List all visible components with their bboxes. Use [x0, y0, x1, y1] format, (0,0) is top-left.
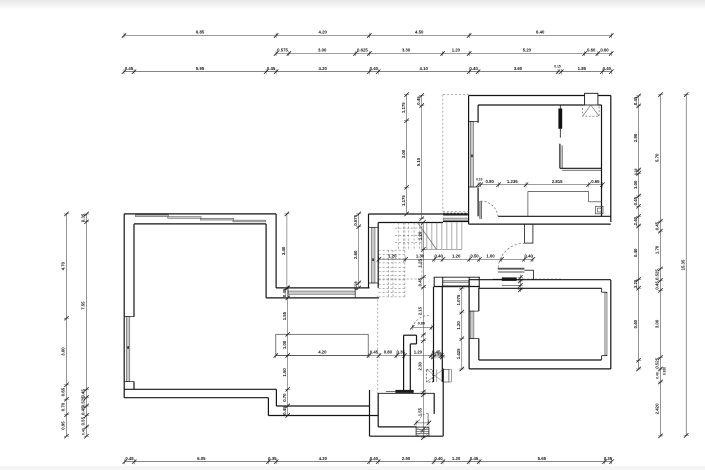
svg-text:4.20: 4.20: [319, 456, 328, 461]
svg-text:1.20: 1.20: [414, 350, 423, 355]
svg-text:5.20: 5.20: [523, 48, 532, 53]
kitchen partition wall with door gap: [558, 105, 562, 138]
svg-text:5.70: 5.70: [655, 153, 660, 162]
svg-text:0.625: 0.625: [357, 48, 368, 53]
svg-text:0.35: 0.35: [604, 456, 613, 461]
svg-text:1.235: 1.235: [507, 179, 518, 184]
svg-text:4.20: 4.20: [319, 66, 328, 71]
dimension chain top row 3: [122, 66, 614, 74]
svg-text:0.225: 0.225: [354, 281, 358, 290]
svg-text:1.70: 1.70: [655, 245, 660, 254]
dimension chain top row 2: [274, 48, 614, 56]
svg-text:4.10: 4.10: [420, 66, 429, 71]
svg-text:1.20: 1.20: [452, 48, 461, 53]
svg-text:1.20: 1.20: [456, 321, 461, 330]
svg-text:0.80: 0.80: [486, 179, 495, 184]
stairs cut diagonal: [418, 223, 437, 250]
svg-text:3.60: 3.60: [514, 66, 523, 71]
svg-text:2.15: 2.15: [418, 306, 423, 315]
chimney box with X: [427, 369, 452, 382]
svg-text:5.10: 5.10: [416, 157, 421, 166]
svg-text:1.55: 1.55: [282, 311, 287, 320]
hall top wall window (right of stairs): [443, 213, 469, 221]
svg-text:0.45: 0.45: [418, 277, 423, 286]
kitchen west window: [469, 122, 479, 188]
svg-text:0.45: 0.45: [655, 281, 660, 290]
dimension chain left inner: [81, 212, 89, 439]
middle wall between WC and bottom-right wing: [434, 287, 443, 382]
corridor door dashed arc: [498, 243, 524, 267]
WC door arc: [412, 315, 430, 327]
svg-text:0.45: 0.45: [125, 456, 134, 461]
svg-text:0.80: 0.80: [384, 350, 393, 355]
svg-text:0.45: 0.45: [434, 352, 441, 356]
svg-text:1.20: 1.20: [388, 254, 397, 259]
bottom-right room SE notch: [602, 355, 607, 360]
svg-text:0.525: 0.525: [655, 269, 660, 280]
svg-text:3.30: 3.30: [402, 48, 411, 53]
svg-text:2.30: 2.30: [418, 362, 423, 371]
middle-bottom room walls: [370, 369, 444, 437]
dimension chain top row 1: [122, 30, 614, 38]
svg-text:1.175: 1.175: [401, 195, 406, 206]
bottom-right room NE notch: [602, 288, 607, 293]
svg-text:0.45: 0.45: [655, 221, 660, 230]
corridor band south window: [434, 277, 480, 288]
svg-text:0.40: 0.40: [633, 248, 638, 257]
svg-text:3.00: 3.00: [61, 347, 66, 356]
dimension chain bottom row: [123, 456, 614, 464]
svg-text:0.45: 0.45: [81, 389, 86, 398]
svg-text:0.55: 0.55: [81, 416, 86, 425]
kitchen door (bottom-left): [480, 201, 498, 219]
south window band of terrace gap: [266, 288, 379, 298]
stairs dimension row: [377, 254, 535, 262]
svg-text:3.00: 3.00: [318, 48, 327, 53]
dimension chain right middle: [655, 92, 663, 438]
middle-bottom room door: [414, 414, 431, 426]
svg-text:2.50: 2.50: [402, 456, 411, 461]
svg-text:0.40: 0.40: [82, 428, 86, 435]
svg-text:1.25: 1.25: [418, 259, 423, 268]
svg-text:4.50: 4.50: [415, 30, 424, 35]
svg-text:0.70: 0.70: [282, 393, 287, 402]
svg-text:4.70: 4.70: [61, 261, 66, 270]
corridor radiator: [493, 277, 521, 285]
stairs dashed void outline: [379, 223, 422, 299]
svg-text:1.20: 1.20: [452, 254, 461, 259]
corridor south wall segment: [498, 269, 534, 280]
svg-text:0.40: 0.40: [656, 372, 660, 379]
svg-text:6.05: 6.05: [197, 456, 206, 461]
svg-text:0.40: 0.40: [525, 254, 534, 259]
svg-text:2.420: 2.420: [655, 403, 660, 414]
svg-text:4.20: 4.20: [318, 350, 327, 355]
svg-text:0.10: 0.10: [476, 178, 482, 182]
bottom-right room east window: [604, 292, 607, 356]
stairs vertical dimension chain: [418, 220, 426, 440]
interior vertical dimension chain bottom-right room: [456, 286, 464, 371]
svg-text:0.40: 0.40: [603, 66, 612, 71]
bottom-right room west window: [469, 311, 479, 338]
radiator below terrace wall: [386, 390, 414, 393]
kitchen counter: [528, 191, 602, 216]
hall left wall: [369, 214, 379, 288]
svg-text:0.50: 0.50: [470, 254, 479, 259]
svg-text:2.815: 2.815: [552, 179, 563, 184]
middle-bottom room hatched sill: [416, 427, 429, 436]
svg-text:6.40: 6.40: [536, 30, 545, 35]
svg-text:2.60: 2.60: [353, 250, 358, 259]
svg-text:0.80: 0.80: [418, 322, 425, 326]
WC door dimension 0.80: [410, 322, 434, 330]
corridor radiator dimension ticks: [518, 275, 523, 293]
svg-text:0.35: 0.35: [268, 456, 277, 461]
svg-text:3.00: 3.00: [655, 319, 660, 328]
svg-text:0.45: 0.45: [282, 288, 287, 297]
gap vertical dimension 3.40: [281, 212, 289, 290]
svg-text:1.175: 1.175: [401, 102, 406, 113]
hall left wall window: [369, 227, 379, 283]
svg-text:7.55: 7.55: [81, 301, 86, 310]
dashed floor-above outline over hall: [443, 95, 469, 212]
svg-text:2.90: 2.90: [633, 133, 638, 142]
stairs dashed continuation (above cut): [395, 223, 422, 250]
svg-text:0.40: 0.40: [370, 456, 379, 461]
svg-text:0.45: 0.45: [416, 96, 421, 105]
gap vertical dimension 0.575/2.60/0.225: [353, 212, 361, 290]
kitchen interior dimension row: [476, 179, 605, 187]
terrace rectangle: [276, 334, 368, 355]
svg-text:0.60: 0.60: [600, 48, 609, 53]
svg-text:15.35: 15.35: [680, 259, 685, 270]
svg-text:5.95: 5.95: [196, 66, 205, 71]
kitchen outer walls: [469, 96, 611, 225]
stairs lower flight treads: [379, 250, 406, 297]
svg-text:1.425: 1.425: [456, 348, 461, 359]
kitchen sink: [596, 206, 604, 214]
svg-text:0.45: 0.45: [633, 96, 638, 105]
svg-text:1.50: 1.50: [282, 368, 287, 377]
svg-text:0.45: 0.45: [81, 406, 86, 415]
dimension chain right inner: [633, 94, 641, 372]
svg-text:0.45: 0.45: [125, 66, 134, 71]
svg-text:0.40: 0.40: [469, 66, 478, 71]
svg-text:3.25: 3.25: [633, 279, 638, 288]
corridor door stub wall: [524, 224, 533, 243]
svg-text:0.525: 0.525: [655, 357, 660, 368]
svg-text:2.40: 2.40: [633, 216, 638, 225]
svg-text:0.575: 0.575: [277, 48, 288, 53]
svg-text:0.35: 0.35: [81, 213, 86, 222]
stairs upper flight treads: [422, 223, 462, 250]
svg-text:6.85: 6.85: [196, 30, 205, 35]
dimension chain right overall: [680, 92, 688, 437]
svg-text:5.65: 5.65: [538, 456, 547, 461]
svg-text:1.55: 1.55: [418, 407, 423, 416]
terrace dimension row: [274, 350, 444, 358]
svg-text:0.40: 0.40: [370, 66, 379, 71]
svg-text:1.075: 1.075: [456, 294, 461, 305]
svg-text:0.15: 0.15: [554, 65, 561, 69]
svg-text:0.70: 0.70: [61, 402, 66, 411]
svg-text:1.20: 1.20: [452, 456, 461, 461]
svg-text:0.15: 0.15: [634, 168, 638, 175]
svg-text:0.40: 0.40: [434, 456, 443, 461]
svg-text:0.45: 0.45: [633, 196, 638, 205]
living room bottom step walls: [268, 389, 378, 415]
hall vertical dimension 0.45/5.10: [416, 93, 424, 221]
svg-text:0.45: 0.45: [470, 456, 479, 461]
svg-text:0.45: 0.45: [370, 350, 379, 355]
svg-text:1.20: 1.20: [418, 231, 423, 240]
svg-text:0.920: 0.920: [662, 367, 666, 375]
hall top wall: [369, 214, 469, 223]
kitchen closet walls: [560, 144, 602, 171]
svg-text:0.45: 0.45: [267, 66, 276, 71]
WC west wall: [404, 335, 417, 390]
svg-text:0.525: 0.525: [81, 396, 86, 407]
svg-text:0.60: 0.60: [587, 48, 596, 53]
dashed opening over bottom-right room top wall: [523, 278, 561, 280]
svg-text:0.65: 0.65: [61, 387, 66, 396]
svg-text:1.00: 1.00: [633, 180, 638, 189]
living room top window: [135, 215, 265, 222]
hall vertical dimension chain: [401, 92, 409, 216]
svg-text:1.85: 1.85: [578, 66, 587, 71]
wall-width dimension 0.45 near WC: [431, 352, 446, 359]
kitchen chimney: [583, 93, 600, 116]
svg-text:0.65: 0.65: [591, 179, 600, 184]
svg-text:0.45: 0.45: [282, 406, 287, 415]
svg-text:0.40: 0.40: [633, 319, 638, 328]
svg-text:3.40: 3.40: [281, 246, 286, 255]
svg-text:4.20: 4.20: [319, 30, 328, 35]
svg-text:1.00: 1.00: [282, 340, 287, 349]
dimension chain left outer: [61, 212, 69, 439]
svg-text:0.575: 0.575: [353, 214, 358, 225]
bottom-right room walls: [469, 280, 611, 369]
svg-text:1.00: 1.00: [486, 254, 495, 259]
svg-text:3.00: 3.00: [401, 149, 406, 158]
living room outer walls: [124, 214, 276, 398]
svg-text:0.40: 0.40: [435, 254, 444, 259]
svg-text:0.95: 0.95: [61, 421, 66, 430]
dashed projection line left of WC: [377, 296, 379, 416]
terrace vertical dimension chain: [282, 286, 290, 418]
living room left window: [124, 317, 134, 382]
